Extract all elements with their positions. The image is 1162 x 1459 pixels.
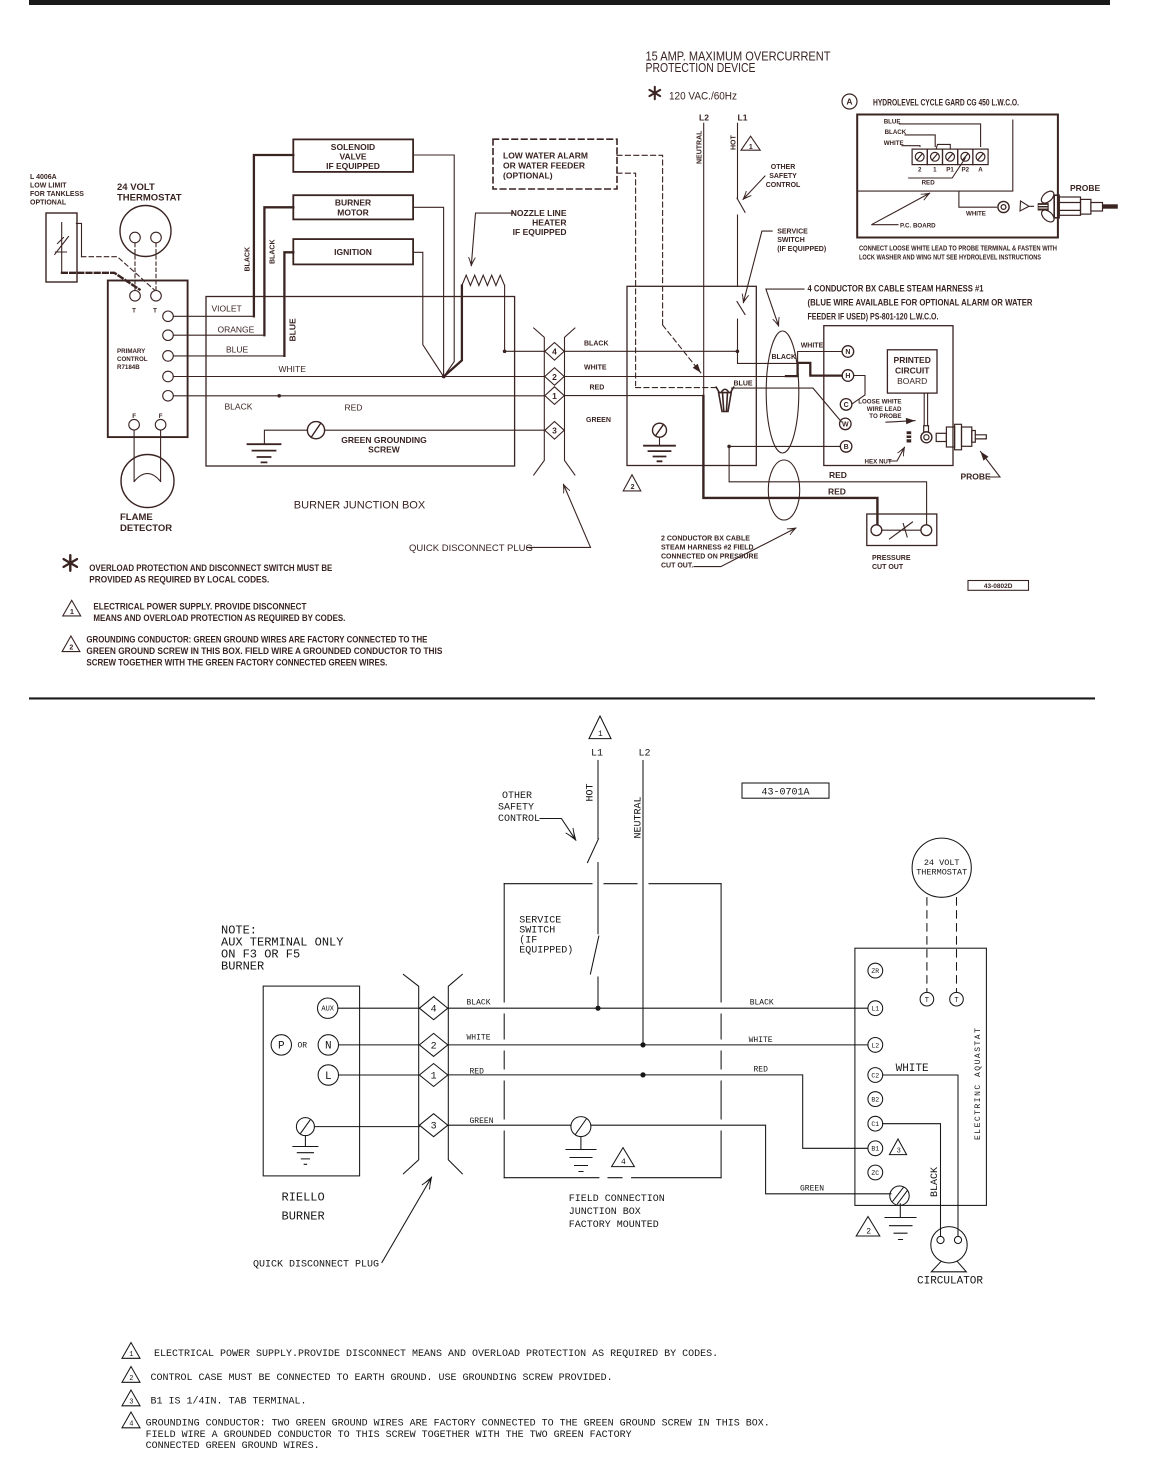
quick disconnect pin diamond 1 bbox=[545, 387, 564, 405]
wire: L1 hot upper segment bbox=[737, 123, 739, 199]
svg-text:(OPTIONAL): (OPTIONAL) bbox=[503, 171, 553, 181]
terminal F2 bbox=[155, 419, 166, 430]
wire: heater left lead (thick) bbox=[444, 286, 462, 377]
svg-text:C2: C2 bbox=[871, 1072, 879, 1079]
svg-text:EQUIPPED): EQUIPPED) bbox=[519, 945, 573, 957]
wire: black harness (heater tap to diamond 4) bbox=[505, 350, 545, 352]
dashed wire: alarm connection B to wire nut bbox=[617, 173, 636, 385]
switch: service switch blade (bottom) bbox=[590, 936, 598, 974]
svg-text:RIELLO: RIELLO bbox=[282, 1191, 325, 1205]
dashed wire: alarm connection A to white wire bbox=[617, 155, 663, 325]
labels BLACK WHITE RED GREEN at quick disconnect bbox=[584, 340, 611, 424]
svg-text:PRESSURE: PRESSURE bbox=[872, 555, 911, 562]
warning triangle 2 (top) bbox=[623, 475, 641, 491]
svg-text:STEAM HARNESS #2 FIELD: STEAM HARNESS #2 FIELD bbox=[661, 545, 754, 552]
part number box 43-0802D bbox=[968, 581, 1029, 591]
quick disconnect pin diamond 3 (bottom) bbox=[419, 1114, 447, 1137]
svg-text:B2: B2 bbox=[871, 1097, 879, 1104]
wire: white (primary to quick disconnect 2) bbox=[173, 376, 544, 378]
svg-text:N: N bbox=[325, 1041, 332, 1053]
wire: thick red to pressure cut out bbox=[703, 396, 877, 524]
svg-text:CIRCULATOR: CIRCULATOR bbox=[917, 1276, 983, 1288]
svg-text:L2: L2 bbox=[638, 749, 650, 760]
svg-text:A: A bbox=[978, 166, 983, 173]
svg-text:FACTORY MOUNTED: FACTORY MOUNTED bbox=[569, 1220, 659, 1231]
svg-text:CONTROL: CONTROL bbox=[766, 182, 801, 189]
component: primary control R7184B box bbox=[108, 281, 188, 438]
svg-text:SCREW TOGETHER WITH THE GREEN: SCREW TOGETHER WITH THE GREEN FACTORY CO… bbox=[86, 658, 387, 668]
wire: blue lead to W terminal bbox=[732, 388, 842, 422]
svg-text:RED: RED bbox=[754, 1066, 769, 1075]
svg-text:FIELD WIRE A GROUNDED CONDUCTO: FIELD WIRE A GROUNDED CONDUCTOR TO THIS … bbox=[146, 1430, 632, 1441]
svg-text:OR: OR bbox=[297, 1042, 307, 1051]
wire: green to quick disconnect 3 bbox=[325, 429, 545, 431]
svg-text:RED: RED bbox=[590, 385, 605, 392]
svg-text:(IF EQUIPPED): (IF EQUIPPED) bbox=[777, 246, 826, 253]
svg-text:1: 1 bbox=[129, 1351, 133, 1359]
note triangle 4 bbox=[122, 1412, 140, 1428]
title: 15 AMP MAXIMUM OVERCURRENT PROTECTION DEVICE bbox=[646, 50, 831, 75]
svg-text:IF EQUIPPED: IF EQUIPPED bbox=[326, 161, 380, 171]
svg-text:ELECTRICAL POWER SUPPLY.PROVID: ELECTRICAL POWER SUPPLY.PROVIDE DISCONNE… bbox=[154, 1349, 718, 1360]
svg-text:GREEN GROUNDING: GREEN GROUNDING bbox=[341, 435, 427, 445]
wire: ignition right lead to neutral point bbox=[413, 252, 443, 376]
svg-text:T: T bbox=[132, 308, 136, 315]
svg-text:RED: RED bbox=[828, 487, 846, 497]
component: circulator bbox=[931, 1227, 967, 1263]
svg-text:THERMOSTAT: THERMOSTAT bbox=[916, 868, 967, 878]
quick disconnect pin diamond 4 (bottom) bbox=[419, 997, 447, 1020]
svg-text:GREEN GROUND SCREW IN THIS BOX: GREEN GROUND SCREW IN THIS BOX. FIELD WI… bbox=[86, 646, 442, 656]
component: probe (detail A) bbox=[1038, 189, 1118, 224]
junction dot: black wire on L1 bbox=[736, 350, 740, 354]
component: 24 volt thermostat (bottom) bbox=[912, 838, 971, 897]
leader arrow to nozzle heater bbox=[471, 213, 513, 265]
quick disconnect left bracket (bottom) bbox=[403, 974, 418, 1173]
leader arrow to other safety control (bottom) bbox=[540, 819, 576, 841]
wire: black/red (primary to quick disconnect 1) bbox=[173, 395, 544, 397]
wire: solenoid right lead to neutral point bbox=[413, 155, 454, 376]
svg-text:LOW LIMIT: LOW LIMIT bbox=[30, 182, 67, 189]
svg-text:1: 1 bbox=[598, 730, 603, 739]
label: L 4006A LOW LIMIT FOR TANKLESS OPTIONAL bbox=[30, 174, 84, 207]
wire: red from P2 bbox=[909, 158, 966, 178]
svg-text:B: B bbox=[844, 444, 849, 451]
wire: green continues to aquastat ground screw bbox=[591, 1125, 891, 1194]
thermostat terminal circles bbox=[130, 232, 141, 243]
svg-text:QUICK DISCONNECT PLUG: QUICK DISCONNECT PLUG bbox=[253, 1259, 379, 1270]
warning triangle 1 (top) bbox=[741, 136, 760, 150]
component: grounding screw (field box) bbox=[653, 423, 667, 437]
svg-text:BURNER: BURNER bbox=[282, 1210, 325, 1224]
wire: burner motor right lead to neutral point bbox=[413, 207, 444, 376]
wire: N to diamond 2 bbox=[339, 1044, 420, 1046]
svg-text:L1: L1 bbox=[591, 749, 603, 760]
box: electrinc aquastat bbox=[855, 948, 987, 1205]
svg-text:2: 2 bbox=[631, 484, 635, 491]
svg-text:ELECTRINC AQUASTAT: ELECTRINC AQUASTAT bbox=[974, 1027, 983, 1140]
junction dot on B wire corner bbox=[727, 445, 731, 449]
wire: jumper H to C bbox=[852, 376, 865, 405]
label: 4 CONDUCTOR BX CABLE STEAM HARNESS text bbox=[808, 283, 1033, 322]
svg-text:BLACK: BLACK bbox=[467, 999, 491, 1008]
svg-text:BLUE: BLUE bbox=[226, 345, 249, 355]
dashed box: LOW WATER ALARM OR WATER FEEDER (OPTIONAL) bbox=[493, 139, 617, 189]
svg-text:BLACK: BLACK bbox=[930, 1167, 941, 1197]
wire: L1 to black wire junction bbox=[597, 977, 599, 1008]
svg-text:L1: L1 bbox=[871, 1006, 879, 1013]
svg-text:BLACK: BLACK bbox=[584, 340, 609, 347]
wire: black to terminal 1 bbox=[905, 135, 935, 147]
svg-text:L2: L2 bbox=[699, 113, 709, 123]
svg-text:1: 1 bbox=[552, 391, 557, 401]
terminal W bbox=[840, 418, 852, 430]
svg-text:OR WATER FEEDER: OR WATER FEEDER bbox=[503, 161, 585, 171]
wire labels black/white/red right bbox=[749, 999, 774, 1075]
label: RIELLO BURNER bbox=[282, 1191, 325, 1224]
svg-text:CIRCUIT: CIRCUIT bbox=[895, 365, 930, 375]
wire: L2 neutral vertical bbox=[703, 123, 705, 396]
terminal C2 bbox=[868, 1068, 883, 1083]
svg-text:BLACK: BLACK bbox=[245, 247, 252, 272]
svg-text:OTHER: OTHER bbox=[502, 791, 532, 802]
terminal B2 bbox=[868, 1092, 883, 1107]
svg-text:OTHER: OTHER bbox=[771, 164, 796, 171]
wire: black (diamond 4 to aquastat L1) bbox=[448, 1007, 868, 1009]
svg-text:3: 3 bbox=[431, 1122, 437, 1133]
wire: L1 upper segment bbox=[597, 761, 599, 839]
svg-text:CUT OUT: CUT OUT bbox=[872, 564, 904, 571]
wire: burner motor left lead (black, thick) bbox=[264, 207, 293, 335]
box: field connection junction box (with wire gaps) bbox=[504, 883, 721, 885]
svg-text:LOCK WASHER AND WING NUT SEE H: LOCK WASHER AND WING NUT SEE HYDROLEVEL … bbox=[859, 255, 1041, 262]
box: field wiring box (right of quick disconnect) bbox=[627, 286, 756, 465]
svg-text:CONNECT LOOSE WHITE LEAD TO PR: CONNECT LOOSE WHITE LEAD TO PROBE TERMIN… bbox=[859, 246, 1057, 253]
svg-text:WHITE: WHITE bbox=[584, 364, 607, 371]
terminal B bbox=[840, 441, 852, 453]
wire: L2 vertical bbox=[642, 761, 644, 1045]
box: hydrolevel detail enclosure bbox=[857, 115, 1058, 238]
quick disconnect right bracket (bottom) bbox=[448, 974, 462, 1173]
labels T T bbox=[132, 308, 157, 315]
terminal labels 2 1 P1 P2 A bbox=[918, 166, 983, 173]
svg-text:GREEN: GREEN bbox=[470, 1117, 494, 1126]
svg-text:A: A bbox=[846, 97, 852, 107]
svg-text:2: 2 bbox=[552, 372, 557, 382]
wire: red harness diamond 1 to L2 corner bbox=[564, 395, 703, 397]
label: SERVICE SWITCH (IF EQUIPPED) bbox=[777, 228, 826, 253]
junction dot L1 on black wire bbox=[595, 1006, 600, 1011]
box: solenoid valve bbox=[293, 139, 413, 172]
wire: violet bbox=[173, 315, 254, 317]
svg-text:CONNECTED GREEN GROUND WIRES.: CONNECTED GREEN GROUND WIRES. bbox=[146, 1441, 320, 1452]
wire: AUX to diamond 4 bbox=[338, 1007, 420, 1009]
svg-text:2: 2 bbox=[918, 166, 922, 173]
svg-text:24 VOLT: 24 VOLT bbox=[924, 858, 960, 868]
symbol: low limit contact inside box bbox=[55, 223, 69, 272]
label: PRIMARY CONTROL R7184B bbox=[117, 348, 148, 371]
page top bar bbox=[29, 0, 1110, 5]
svg-text:120 VAC./60Hz: 120 VAC./60Hz bbox=[669, 91, 737, 103]
svg-text:TO PROBE: TO PROBE bbox=[869, 413, 901, 420]
svg-text:WHITE: WHITE bbox=[966, 211, 986, 218]
component: green grounding screw (junction box) bbox=[307, 422, 324, 439]
svg-text:PROBE: PROBE bbox=[1070, 183, 1101, 193]
component: probe (main diagram) bbox=[936, 424, 986, 450]
svg-text:WHITE: WHITE bbox=[279, 364, 307, 374]
terminal T (right) bbox=[950, 992, 964, 1006]
terminal AUX bbox=[318, 998, 338, 1018]
component: flame detector circle with dome bbox=[121, 455, 174, 508]
terminal P bbox=[271, 1035, 291, 1055]
svg-text:OVERLOAD PROTECTION AND DISCON: OVERLOAD PROTECTION AND DISCONNECT SWITC… bbox=[89, 563, 332, 573]
wire: L1 to N terminal with jog bbox=[738, 351, 842, 363]
leader arrow to service switch bbox=[743, 231, 772, 302]
p.c. board outline lines bbox=[857, 120, 1013, 191]
wire: loose white lead (double) from pcb bbox=[924, 393, 927, 426]
svg-text:RED: RED bbox=[470, 1067, 485, 1076]
component: L4006A low limit box bbox=[46, 213, 77, 282]
svg-text:IF EQUIPPED: IF EQUIPPED bbox=[513, 227, 567, 237]
leader arrow to other safety control switch bbox=[743, 176, 765, 199]
svg-text:BLACK: BLACK bbox=[225, 402, 253, 412]
part number box 43-0701A bbox=[742, 783, 829, 798]
quick disconnect pin diamond 1 (bottom) bbox=[419, 1064, 447, 1087]
wire: C1 to circulator left terminal bbox=[883, 1124, 941, 1237]
svg-text:OPTIONAL: OPTIONAL bbox=[30, 199, 67, 206]
svg-text:P.C. BOARD: P.C. BOARD bbox=[900, 222, 936, 229]
wire: white (diamond 2 to aquastat L2) bbox=[448, 1044, 868, 1046]
label: OTHER SAFETY CONTROL bbox=[766, 164, 801, 189]
svg-text:4: 4 bbox=[431, 1005, 437, 1016]
svg-text:L1: L1 bbox=[738, 113, 748, 123]
wire: heater right lead bbox=[504, 286, 506, 352]
label: 24 VOLT THERMOSTAT (top) bbox=[117, 182, 182, 204]
svg-text:T: T bbox=[925, 997, 929, 1005]
caption: connect loose white lead instructions bbox=[859, 246, 1057, 262]
svg-text:CONTROL CASE MUST BE CONNECTED: CONTROL CASE MUST BE CONNECTED TO EARTH … bbox=[151, 1373, 613, 1384]
svg-text:VIOLET: VIOLET bbox=[212, 304, 242, 314]
terminal L2 (aquastat) bbox=[868, 1038, 883, 1053]
wire: solenoid left lead (black, thick) bbox=[254, 155, 293, 316]
label: GREEN GROUNDING SCREW bbox=[341, 435, 427, 455]
ring terminal (detail) bbox=[998, 201, 1009, 212]
terminal ZR bbox=[868, 963, 883, 978]
leader arrow to BX oval 1 bbox=[766, 289, 804, 326]
svg-text:FEEDER IF USED) PS-801-120 L.W: FEEDER IF USED) PS-801-120 L.W.C.O. bbox=[808, 311, 939, 322]
svg-text:GROUNDING CONDUCTOR: TWO GREEN: GROUNDING CONDUCTOR: TWO GREEN GROUND WI… bbox=[146, 1419, 770, 1430]
svg-text:1: 1 bbox=[70, 609, 74, 616]
note triangle 1 bbox=[122, 1343, 140, 1359]
asterisk footnote bbox=[64, 555, 77, 571]
terminal T (left) bbox=[920, 992, 934, 1006]
svg-text:CONTROL: CONTROL bbox=[498, 814, 540, 825]
svg-text:3: 3 bbox=[552, 426, 557, 436]
grounding screw (field connection box) bbox=[571, 1117, 591, 1137]
svg-text:WHITE: WHITE bbox=[467, 1034, 491, 1043]
svg-text:FOR TANKLESS: FOR TANKLESS bbox=[30, 191, 84, 198]
svg-text:C1: C1 bbox=[871, 1121, 879, 1128]
dashed wire: L4006A lower lead (thick) to T1 bbox=[62, 273, 140, 290]
svg-text:2 CONDUCTOR BX CABLE: 2 CONDUCTOR BX CABLE bbox=[661, 536, 750, 543]
svg-text:L2: L2 bbox=[871, 1042, 879, 1049]
quick disconnect pin diamond 2 (bottom) bbox=[419, 1033, 447, 1056]
dashed wire: L4006A upper lead to T2 bbox=[82, 257, 155, 290]
svg-text:H: H bbox=[845, 373, 850, 380]
svg-text:SAFETY: SAFETY bbox=[769, 173, 797, 180]
svg-text:BOARD: BOARD bbox=[897, 376, 927, 386]
svg-text:QUICK DISCONNECT PLUG: QUICK DISCONNECT PLUG bbox=[409, 543, 533, 554]
svg-text:BLACK: BLACK bbox=[885, 129, 907, 136]
svg-text:WIRE LEAD: WIRE LEAD bbox=[867, 406, 902, 413]
svg-text:BLACK: BLACK bbox=[270, 240, 277, 265]
svg-text:BURNER JUNCTION BOX: BURNER JUNCTION BOX bbox=[294, 500, 426, 512]
svg-text:NEUTRAL: NEUTRAL bbox=[697, 130, 704, 164]
svg-text:GROUNDING CONDUCTOR: GREEN GRO: GROUNDING CONDUCTOR: GREEN GROUND WIRES … bbox=[86, 635, 427, 645]
labels F F bbox=[132, 413, 163, 420]
label: NOTE AUX TERMINAL ONLY ON F3 OR F5 BURNER bbox=[221, 924, 343, 974]
box: printed circuit board bbox=[887, 350, 937, 393]
svg-text:2: 2 bbox=[431, 1041, 437, 1052]
svg-text:WHITE: WHITE bbox=[884, 140, 904, 147]
wire: L1 hot lower segment to junction bbox=[737, 319, 739, 351]
svg-text:HOT: HOT bbox=[586, 783, 597, 801]
junction dot: common neutral point on white wire bbox=[442, 375, 446, 379]
label: FIELD CONNECTION JUNCTION BOX FACTORY MOUNTED bbox=[569, 1194, 665, 1231]
terminal F1 bbox=[129, 419, 140, 430]
grounding screw (riello burner) bbox=[296, 1118, 314, 1136]
box: burner motor bbox=[293, 195, 413, 219]
terminal ZC bbox=[868, 1165, 883, 1180]
switch: other safety control break blade bbox=[737, 198, 745, 212]
svg-text:LOW WATER ALARM: LOW WATER ALARM bbox=[503, 151, 588, 161]
ground symbol (aquastat) bbox=[885, 1204, 916, 1240]
ground symbol (riello) bbox=[293, 1136, 318, 1165]
ground symbol (field box) bbox=[659, 437, 661, 445]
svg-text:T: T bbox=[954, 997, 958, 1005]
svg-text:L 4006A: L 4006A bbox=[30, 174, 57, 181]
terminal N bbox=[842, 346, 854, 358]
svg-text:4: 4 bbox=[129, 1421, 133, 1429]
svg-text:SAFETY: SAFETY bbox=[498, 803, 534, 814]
resistor: nozzle line heater element bbox=[462, 275, 505, 285]
svg-text:24 VOLT: 24 VOLT bbox=[117, 182, 155, 193]
leader arrow to BX oval 2 bbox=[694, 528, 796, 567]
svg-text:BURNER: BURNER bbox=[335, 198, 371, 208]
svg-text:THERMOSTAT: THERMOSTAT bbox=[117, 192, 182, 203]
note 4 text (3 lines) bbox=[146, 1419, 770, 1453]
svg-text:HOT: HOT bbox=[731, 135, 738, 151]
svg-text:WHITE: WHITE bbox=[801, 343, 824, 350]
wire nut on blue lead bbox=[719, 393, 732, 412]
svg-text:GREEN: GREEN bbox=[586, 417, 611, 424]
warning triangle 3 (at B1) bbox=[889, 1139, 906, 1155]
terminal strip: 5 screw terminals bbox=[912, 149, 988, 165]
svg-text:PROTECTION DEVICE: PROTECTION DEVICE bbox=[646, 61, 756, 75]
note triangle 2 bbox=[122, 1367, 140, 1383]
svg-text:BLACK: BLACK bbox=[750, 999, 774, 1008]
svg-text:CONTROL: CONTROL bbox=[117, 356, 148, 363]
label: PRESSURE CUT OUT bbox=[872, 555, 911, 571]
svg-text:PRIMARY: PRIMARY bbox=[117, 348, 146, 355]
wire: blue bbox=[173, 355, 284, 357]
label: NOZZLE LINE HEATER IF EQUIPPED bbox=[511, 208, 567, 237]
terminal C1 bbox=[868, 1116, 883, 1131]
pressure switch contact bbox=[882, 522, 921, 539]
svg-text:1: 1 bbox=[933, 166, 937, 173]
label: OTHER SAFETY CONTROL (bottom) bbox=[498, 791, 540, 825]
svg-text:GREEN: GREEN bbox=[800, 1185, 824, 1194]
svg-text:R7184B: R7184B bbox=[117, 364, 140, 371]
svg-text:B1: B1 bbox=[871, 1146, 879, 1153]
svg-text:43-0701A: 43-0701A bbox=[761, 788, 809, 799]
svg-text:1: 1 bbox=[749, 144, 753, 151]
label: 2 CONDUCTOR BX CABLE STEAM HARNESS 2 bbox=[661, 536, 759, 570]
component: pressure cut out box bbox=[867, 514, 937, 546]
wire: black harness (diamond 4 to L1) bbox=[564, 350, 737, 352]
wire: red (diamond 1 to aquastat B1) bbox=[448, 1075, 868, 1148]
svg-text:2: 2 bbox=[866, 1227, 871, 1236]
label: LOOSE WHITE WIRE LEAD TO PROBE bbox=[858, 399, 902, 420]
terminal T1 bbox=[130, 291, 141, 302]
terminal T2 bbox=[151, 291, 162, 302]
warning triangle 2 (aquastat ground) bbox=[856, 1217, 880, 1237]
svg-text:C: C bbox=[844, 402, 849, 409]
svg-text:4: 4 bbox=[552, 347, 557, 357]
wire: screw to ground bbox=[264, 430, 307, 444]
svg-text:T: T bbox=[153, 308, 157, 315]
box: ignition bbox=[293, 239, 413, 264]
junction dot: heater lead on black wire bbox=[503, 350, 507, 354]
svg-text:AUX: AUX bbox=[321, 1006, 334, 1014]
svg-text:PROBE: PROBE bbox=[961, 472, 992, 482]
svg-text:WHITE: WHITE bbox=[749, 1036, 773, 1045]
footnote triangle 2 bbox=[62, 636, 80, 652]
svg-text:ELECTRICAL POWER SUPPLY. PROVI: ELECTRICAL POWER SUPPLY. PROVIDE DISCONN… bbox=[93, 602, 307, 612]
svg-text:P1: P1 bbox=[946, 166, 954, 173]
box: printed circuit board enclosure bbox=[824, 326, 953, 466]
quick disconnect pin diamond 2 bbox=[545, 368, 564, 386]
svg-text:MOTOR: MOTOR bbox=[337, 207, 368, 217]
svg-text:FLAME: FLAME bbox=[120, 512, 153, 523]
svg-text:W: W bbox=[842, 422, 849, 429]
svg-text:ORANGE: ORANGE bbox=[218, 325, 255, 335]
wire: ignition left lead (blue, thick) bbox=[284, 252, 293, 356]
svg-text:PROVIDED AS REQUIRED BY LOCAL: PROVIDED AS REQUIRED BY LOCAL CODES. bbox=[89, 574, 269, 584]
svg-text:JUNCTION BOX: JUNCTION BOX bbox=[569, 1207, 641, 1218]
svg-text:43-0802D: 43-0802D bbox=[984, 583, 1013, 590]
quick disconnect plug left bracket (top) bbox=[534, 328, 545, 475]
footnote triangle 1 bbox=[63, 600, 81, 616]
wire: blue to terminal A bbox=[900, 124, 981, 147]
quick disconnect pin diamond 4 bbox=[545, 343, 564, 361]
terminal N bbox=[318, 1035, 338, 1055]
svg-text:4: 4 bbox=[621, 1158, 626, 1167]
wire labels black/white/red/green left bbox=[467, 999, 494, 1126]
asterisk: 120 VAC/60Hz supply bbox=[649, 87, 660, 99]
svg-text:2: 2 bbox=[129, 1375, 133, 1383]
wire: L to diamond 1 bbox=[339, 1074, 420, 1076]
wire: orange bbox=[173, 334, 264, 336]
box: burner junction box bbox=[206, 297, 515, 467]
svg-text:BLUE: BLUE bbox=[734, 381, 753, 388]
warning triangle 4 bbox=[612, 1148, 635, 1167]
junction dot on red wire bbox=[640, 1072, 645, 1077]
svg-text:SWITCH: SWITCH bbox=[777, 237, 805, 244]
wires: flame detector leads bbox=[134, 430, 161, 482]
box: riello burner bbox=[263, 986, 359, 1176]
switch: service switch blade bbox=[737, 302, 745, 315]
